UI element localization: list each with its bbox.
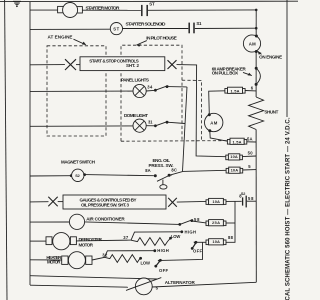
- arrowhead IN PILOT HOUSE: [137, 44, 142, 47]
- wire bus to alternator belt upper: [30, 276, 157, 279]
- ground: [13, 1, 21, 7]
- starter solenoid ST: [110, 23, 122, 35]
- svg-text:GAUGES & CONTROLS FED BY: GAUGES & CONTROLS FED BY: [80, 197, 137, 202]
- arrowhead AT ENGINE: [82, 42, 86, 45]
- wire contact to right bus: [148, 9, 256, 11]
- node right of magnet switch: [83, 173, 86, 176]
- svg-text:ON PULL BOX: ON PULL BOX: [212, 71, 239, 76]
- svg-text:ON ENGINE: ON ENGINE: [259, 55, 282, 60]
- svg-text:ST: ST: [149, 1, 155, 6]
- svg-text:88: 88: [228, 235, 234, 240]
- svg-text:58: 58: [194, 217, 200, 222]
- dashed box AT ENGINE: [47, 46, 106, 136]
- contact ST: [142, 5, 147, 16]
- svg-text:PANEL LIGHTS: PANEL LIGHTS: [121, 78, 149, 83]
- arrow IN PILOT HOUSE: [137, 41, 147, 45]
- starter motor M1: [58, 3, 83, 18]
- wire S1 to right bus: [195, 27, 256, 29]
- node defroster LOW: [169, 237, 172, 240]
- heater resistor fork: [92, 251, 155, 263]
- wire fuse to bus 5A: [247, 141, 256, 143]
- switch panel lights: [146, 85, 187, 91]
- svg-text:AM: AM: [210, 120, 217, 125]
- lamp panel lights: [133, 84, 146, 97]
- wire X to corner V2: [177, 65, 226, 157]
- magnet switch S2: [72, 169, 84, 181]
- svg-text:32: 32: [102, 252, 108, 257]
- svg-text:8C: 8C: [171, 168, 177, 173]
- wire row 1 bus to starter motor: [30, 9, 58, 11]
- svg-text:DEFROSTER: DEFROSTER: [79, 237, 103, 242]
- wire fuse to bus node 6: [245, 90, 256, 92]
- node AM top: [255, 35, 258, 38]
- svg-text:1.5A: 1.5A: [231, 88, 240, 93]
- wire: left bus: [29, 2, 31, 285]
- wire row panel lights: [30, 90, 133, 92]
- wire fuse 5 to bus: [243, 169, 257, 171]
- ammeter AM on engine: [243, 35, 260, 52]
- svg-text:PRESS. SW.: PRESS. SW.: [149, 163, 174, 168]
- wire right bus lower: [255, 130, 257, 283]
- svg-text:STARTER MOTOR: STARTER MOTOR: [86, 5, 121, 11]
- node left of magnet switch: [70, 174, 73, 177]
- svg-text:1.5A: 1.5A: [233, 139, 242, 144]
- wire solenoid to contact S1: [123, 28, 189, 30]
- node defroster HIGH: [180, 230, 183, 233]
- svg-text:10A: 10A: [231, 167, 239, 172]
- switch dome light: [146, 121, 185, 127]
- oil pressure switch: [154, 174, 172, 189]
- svg-text:MOTOR: MOTOR: [79, 243, 94, 248]
- wire row start-stop from bus: [30, 64, 65, 66]
- arrow ON ENGINE: [258, 51, 262, 54]
- wire row 2 bus to solenoid: [30, 28, 110, 30]
- connector X right of gauges box: [168, 198, 177, 207]
- svg-text:STARTER SOLENOID: STARTER SOLENOID: [126, 22, 167, 28]
- svg-text:S2: S2: [241, 192, 246, 196]
- wire row air conditioner: [30, 221, 69, 223]
- air conditioner clutch: [69, 214, 84, 229]
- wire V1 switch common bus: [183, 87, 227, 171]
- svg-text:S1: S1: [196, 21, 202, 26]
- wire magnet switch to oil switch: [85, 175, 154, 176]
- svg-text:OIL PRESSURE SW. SHT. 3: OIL PRESSURE SW. SHT. 3: [81, 203, 129, 208]
- fuse F6 10A: [206, 239, 226, 245]
- wire alternator belt diagonal: [126, 278, 161, 291]
- wire row gauges from bus: [30, 201, 49, 203]
- fuse F7 10A row 5: [226, 167, 243, 173]
- contact S1: [189, 23, 194, 34]
- wire defroster common down to heater common: [161, 242, 203, 260]
- wire 25A to tie vertical: [226, 222, 235, 224]
- svg-text:HIGH: HIGH: [185, 230, 197, 235]
- connector X left of start-stop box: [65, 59, 76, 70]
- svg-text:34: 34: [147, 84, 153, 89]
- fuse F3 10A row 50: [226, 154, 243, 160]
- dashed box IN PILOT HOUSE: [121, 45, 235, 141]
- arrow AT ENGINE: [74, 39, 86, 44]
- box start and stop controls: [80, 57, 165, 71]
- wire 8C to V1: [169, 172, 182, 176]
- wire AC to switch: [85, 222, 180, 225]
- svg-text:8A: 8A: [145, 168, 151, 173]
- box gauges and controls: [63, 195, 166, 209]
- arrowhead ON ENGINE: [258, 51, 262, 54]
- shunt: [249, 97, 264, 130]
- svg-text:AM: AM: [249, 41, 256, 46]
- wire row dome light: [30, 125, 133, 127]
- wire alternator output: [152, 282, 256, 287]
- svg-text:HIGH: HIGH: [157, 248, 169, 253]
- svg-text:AT ENGINE: AT ENGINE: [48, 34, 73, 39]
- svg-text:AIR CONDITIONER: AIR CONDITIONER: [86, 217, 125, 222]
- switch 58: [178, 219, 206, 226]
- node heater LOW: [139, 257, 142, 260]
- defroster resistor fork: [131, 232, 182, 246]
- arrow breaker: [243, 72, 252, 75]
- wire fuse 88 to tie vertical: [226, 201, 235, 242]
- arrowhead heater OFF blade: [158, 260, 161, 263]
- wire bus corner to alternator rail: [30, 285, 128, 287]
- wire X to fuse 10A: [177, 200, 206, 203]
- connector X left of gauges box: [48, 197, 57, 207]
- svg-text:25A: 25A: [212, 220, 220, 225]
- wire X to gauges box: [58, 201, 63, 203]
- svg-text:MOTOR: MOTOR: [47, 260, 61, 265]
- fuse F1 1.5A: [225, 87, 245, 93]
- alternator: [135, 278, 152, 295]
- page border top: [0, 0, 298, 2]
- ammeter AM pilot house: [205, 113, 223, 131]
- svg-text:S2: S2: [75, 174, 80, 178]
- wire right bus upper: [255, 10, 257, 97]
- node row1 right: [255, 9, 258, 12]
- lamp dome light: [133, 119, 146, 132]
- svg-text:DOME LIGHT: DOME LIGHT: [124, 113, 148, 118]
- svg-text:ALTERNATOR: ALTERNATOR: [165, 280, 196, 285]
- switch heater OFF: [154, 259, 161, 268]
- svg-text:OFF: OFF: [159, 268, 168, 273]
- page border right segment: [286, 0, 288, 117]
- wire X to box: [76, 64, 80, 66]
- connector X right of start-stop box: [168, 60, 177, 69]
- arrowhead breaker: [248, 73, 252, 76]
- arrowhead defroster OFF blade: [193, 242, 196, 245]
- svg-text:5A: 5A: [247, 136, 253, 141]
- wire row defroster: [30, 240, 46, 242]
- breaker 60A: [255, 67, 261, 86]
- switch defroster OFF: [191, 241, 206, 250]
- fuse F4 10A: [206, 198, 226, 204]
- wire motor to contact ST: [82, 9, 140, 11]
- fuse F5 25A: [206, 220, 226, 226]
- svg-text:CAL SCHEMATIC 560 HOIST — ELEC: CAL SCHEMATIC 560 HOIST — ELECTRIC START…: [286, 117, 292, 300]
- node AM pilot top: [208, 113, 211, 116]
- wire fuse to contact S2: [226, 200, 242, 202]
- svg-text:MAGNET SWITCH: MAGNET SWITCH: [61, 159, 95, 164]
- svg-text:58: 58: [248, 196, 254, 201]
- node AM bottom: [255, 50, 258, 53]
- page border left: [5, 0, 7, 300]
- svg-text:10A: 10A: [212, 239, 220, 244]
- wire S2 to right bus: [247, 200, 256, 202]
- svg-text:IN PILOT HOUSE: IN PILOT HOUSE: [146, 36, 177, 41]
- wire AM pilot top to fuse 1.5A: [209, 91, 225, 115]
- node heater HIGH: [153, 249, 156, 252]
- svg-text:LOW: LOW: [171, 234, 181, 239]
- arrowheads: [82, 42, 262, 263]
- svg-text:OFF: OFF: [193, 248, 202, 253]
- node AM pilot bottom: [208, 129, 211, 132]
- svg-text:ST: ST: [113, 26, 119, 31]
- contact S2: [243, 196, 247, 208]
- wire fuse 50 to bus: [242, 155, 256, 158]
- svg-text:SHUNT: SHUNT: [264, 110, 278, 115]
- svg-text:LOW: LOW: [141, 261, 151, 266]
- svg-text:37: 37: [123, 235, 129, 240]
- heater motor: [62, 252, 92, 269]
- svg-text:31: 31: [148, 119, 153, 124]
- wire row heater: [30, 259, 62, 261]
- wire row magnet switch: [30, 175, 72, 177]
- wire AM pilot bottom to fuse 1.5A lower: [210, 131, 228, 141]
- svg-text:50: 50: [248, 150, 254, 155]
- fuse F2 1.5A: [227, 138, 246, 144]
- svg-text:10A: 10A: [212, 199, 220, 204]
- svg-text:10A: 10A: [230, 154, 238, 159]
- svg-text:SHT. 2: SHT. 2: [126, 63, 139, 68]
- defroster motor: [46, 233, 76, 250]
- node row2 right: [255, 27, 258, 30]
- wire defroster motor to fork: [76, 239, 131, 242]
